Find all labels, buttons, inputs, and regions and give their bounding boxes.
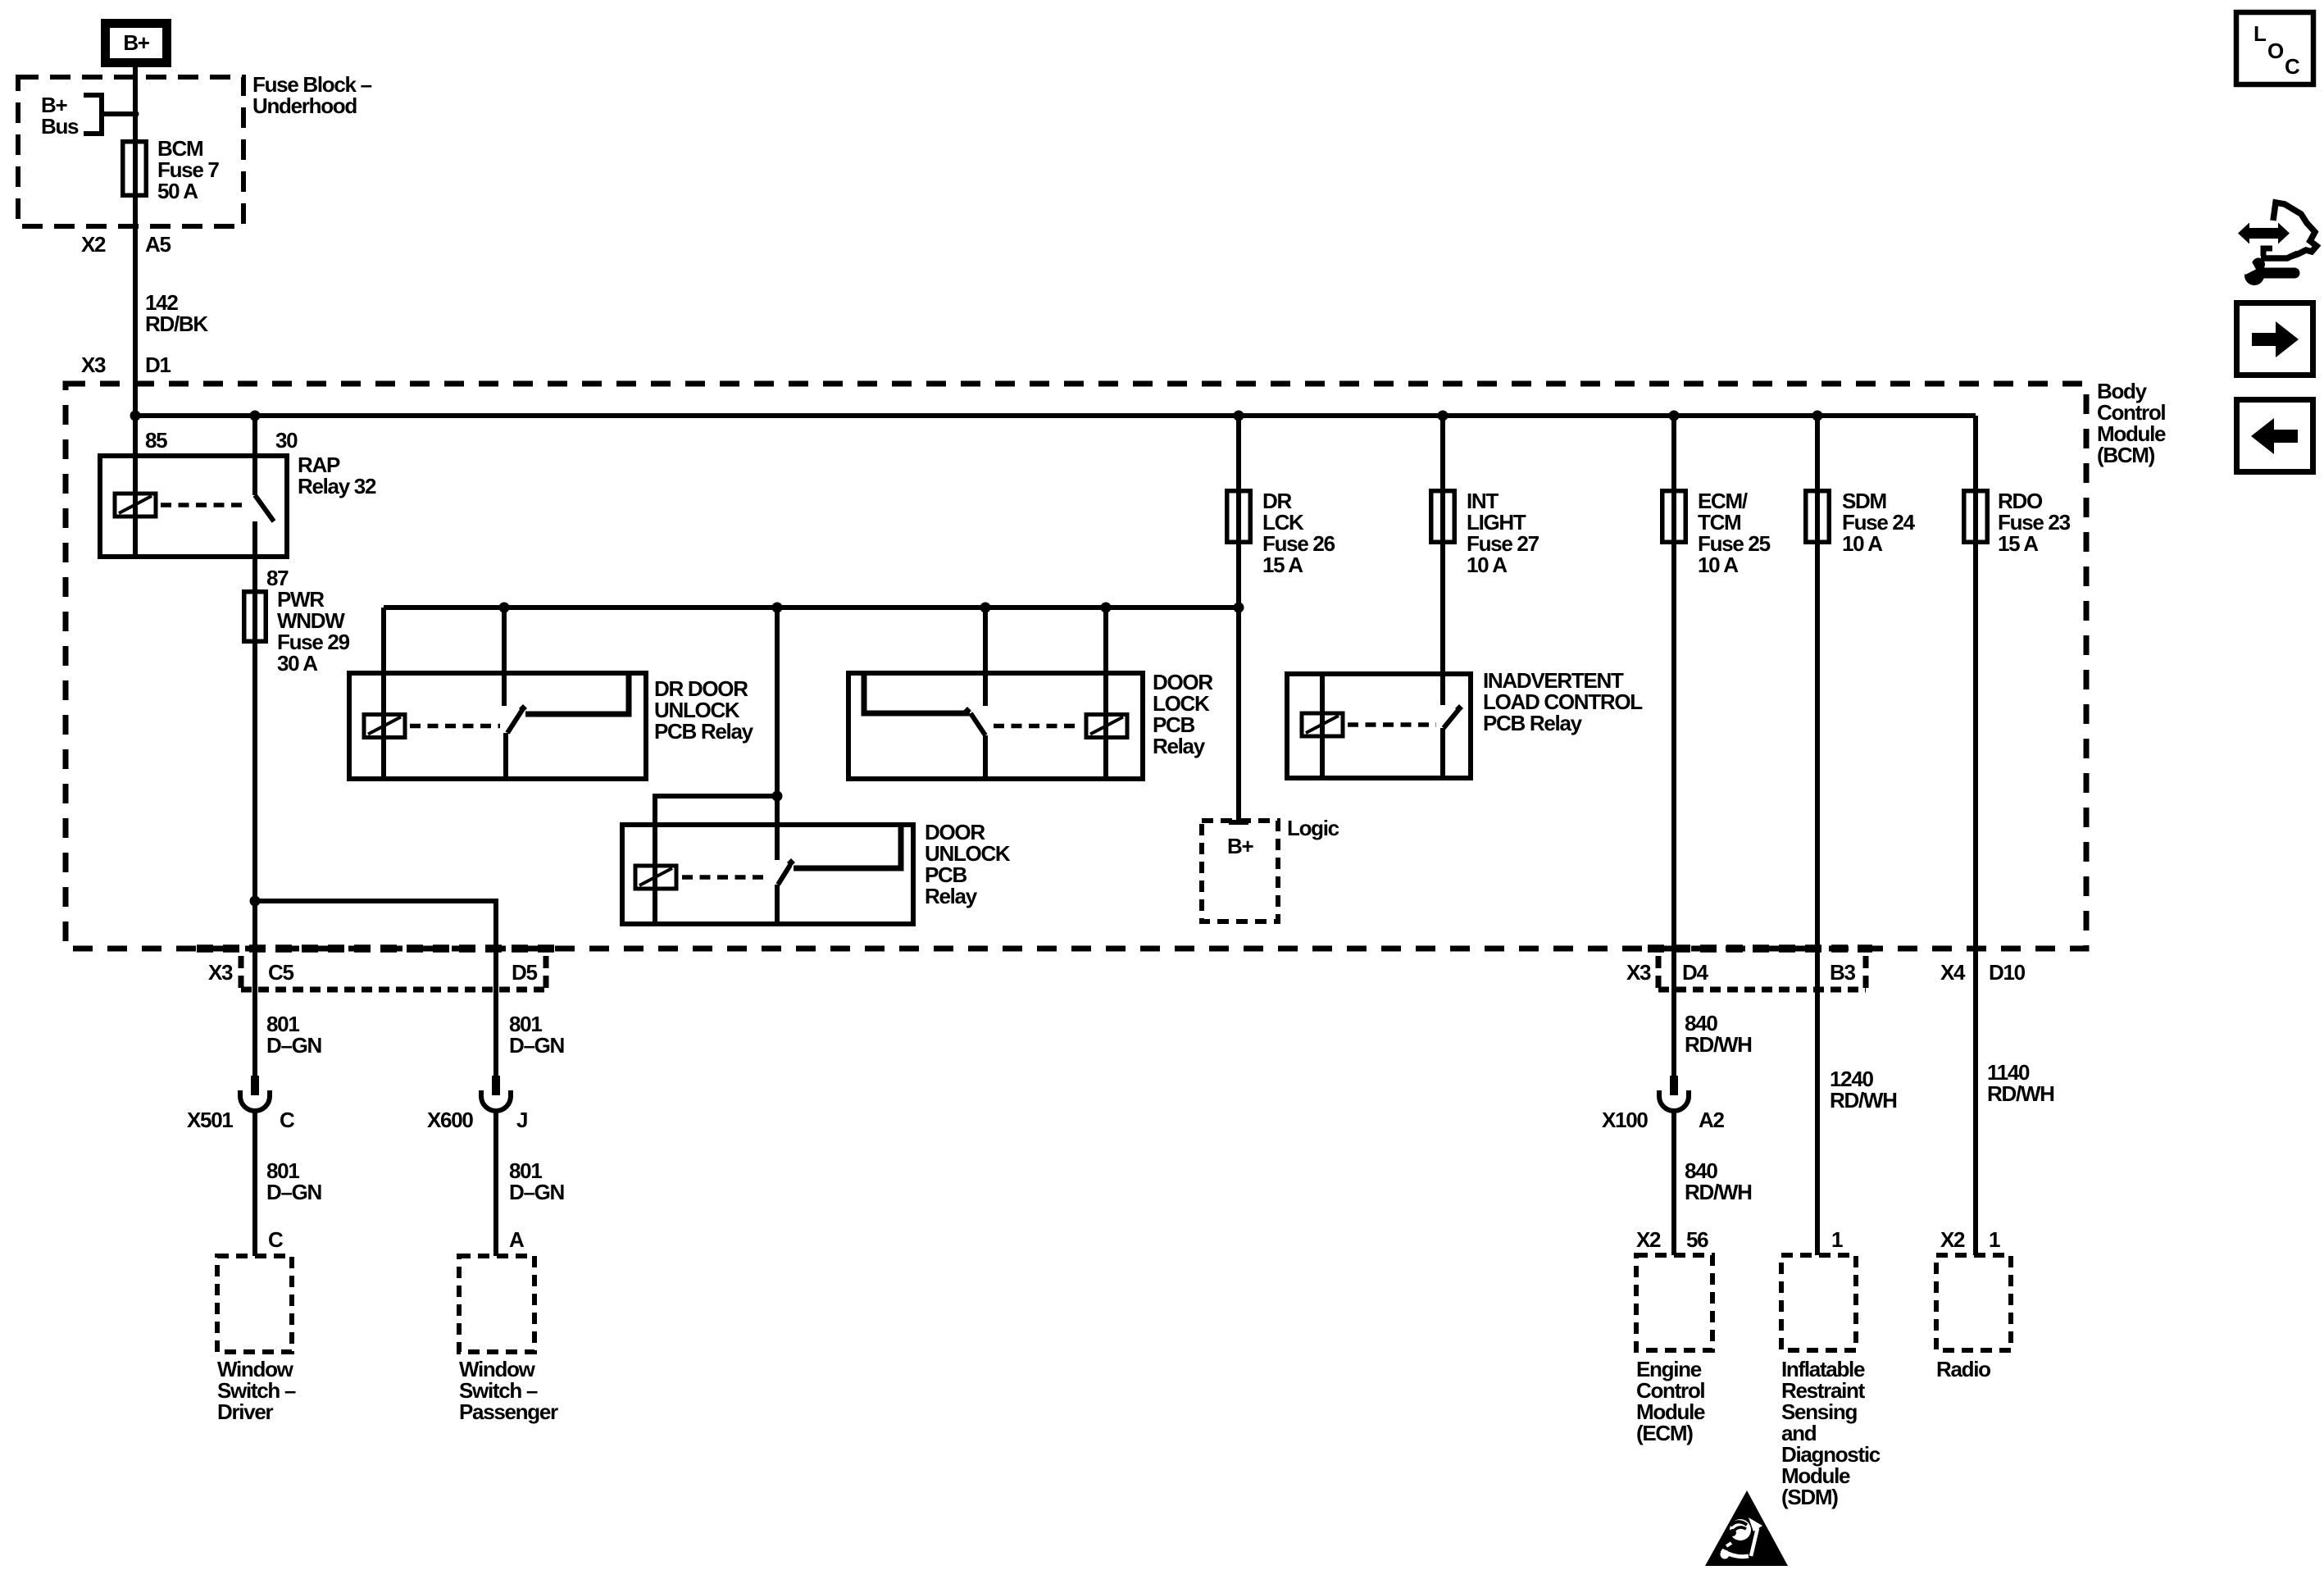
svg-text:X2: X2 — [81, 232, 106, 257]
svg-text:15 A: 15 A — [1998, 531, 2039, 556]
label Logic — [1287, 816, 1339, 840]
svg-text:A: A — [509, 1227, 525, 1252]
wire 142 feed from B+ to BCM — [133, 67, 138, 416]
label DOOR LOCK PCB Relay — [1153, 670, 1213, 758]
svg-text:D10: D10 — [1989, 960, 2026, 985]
wire switched rail — [384, 605, 1239, 610]
svg-text:Relay 32: Relay 32 — [298, 474, 376, 498]
node rail/fuse26 branch — [1234, 603, 1244, 613]
node bus/fuse25 — [1669, 411, 1680, 421]
label pin 85 — [145, 428, 167, 453]
wire label 142 RD/BK — [145, 290, 208, 336]
label X3 — [208, 960, 233, 985]
DR-unlock coil pin wire — [381, 607, 386, 779]
node bus/fuse26 — [1234, 411, 1244, 421]
svg-text:X3: X3 — [208, 960, 233, 985]
node rail/door-lock coil — [1101, 603, 1112, 613]
svg-text:O: O — [2267, 39, 2284, 63]
svg-text:C: C — [2285, 54, 2300, 79]
icon arrow previous page — [2237, 400, 2313, 472]
svg-text:D–GN: D–GN — [266, 1033, 322, 1058]
label Radio — [1936, 1357, 1990, 1381]
box SDM — [1781, 1255, 1856, 1350]
svg-text:1: 1 — [1831, 1227, 1843, 1252]
svg-text:85: 85 — [145, 428, 167, 453]
inadvertent switch blade — [1443, 704, 1463, 778]
svg-text:X2: X2 — [1940, 1227, 1965, 1252]
label Window Switch Driver — [217, 1357, 296, 1424]
label fuse block underhood — [252, 72, 372, 118]
wire label 1140 RD/WH — [1987, 1060, 2054, 1106]
svg-text:PCB Relay: PCB Relay — [1483, 711, 1583, 735]
icon airbag caution triangle — [1705, 1490, 1788, 1566]
svg-text:RD/BK: RD/BK — [145, 312, 208, 336]
svg-text:RD/WH: RD/WH — [1685, 1180, 1752, 1204]
svg-text:A5: A5 — [145, 232, 171, 257]
wire 801 D-GN to driver switch — [255, 1110, 322, 1256]
svg-text:RD/WH: RD/WH — [1987, 1081, 2054, 1106]
wire label 801 D-GN (C5) — [266, 1012, 322, 1058]
label Inflatable Restraint SDM — [1781, 1357, 1881, 1509]
svg-text:10 A: 10 A — [1698, 553, 1739, 577]
box Radio — [1936, 1255, 2011, 1350]
label INADVERTENT LOAD CONTROL PCB Relay — [1483, 668, 1643, 735]
label X4 — [1940, 960, 1966, 985]
svg-text:C: C — [268, 1227, 284, 1252]
DR-unlock NO contact bar — [525, 676, 629, 714]
fuse block underhood box — [18, 77, 243, 226]
door-unlock switch pin wire — [775, 607, 780, 860]
Body Control Module (BCM) box — [66, 384, 2086, 949]
connector strip X3 C5/D5 — [241, 956, 546, 994]
fuse PWR WNDW Fuse 29 30 A — [244, 592, 266, 642]
svg-text:(SDM): (SDM) — [1781, 1485, 1838, 1509]
svg-text:X600: X600 — [427, 1108, 473, 1132]
label pin 1 (SDM) — [1831, 1227, 1843, 1252]
svg-text:D–GN: D–GN — [509, 1033, 565, 1058]
fuse RDO Fuse 23 15 A — [1964, 416, 1988, 1255]
DR-unlock switch blade — [506, 704, 527, 779]
wire label 1240 RD/WH — [1830, 1067, 1897, 1113]
label SDM Fuse 24 — [1842, 489, 1916, 556]
inadvertent switch pin wire — [1440, 544, 1445, 705]
connector X600 pin J — [427, 1076, 527, 1132]
label pin B3 — [1830, 960, 1855, 985]
relay DOOR LOCK PCB — [848, 673, 1143, 779]
svg-text:X3: X3 — [81, 353, 106, 377]
wire label 840 RD/WH lower — [1674, 1110, 1752, 1255]
node B+ logic — [1202, 821, 1278, 921]
label pin 30 — [275, 428, 298, 453]
RAP relay coil — [115, 494, 248, 516]
svg-text:(BCM): (BCM) — [2097, 443, 2155, 467]
relay RAP Relay 32 — [100, 456, 287, 557]
wire 801 D-GN to passenger switch — [496, 1110, 565, 1256]
connector X3 pin D1 — [81, 353, 171, 377]
door-unlock NO contact bar — [794, 827, 901, 868]
node bus/fuse24 — [1812, 411, 1823, 421]
svg-text:D5: D5 — [512, 960, 537, 985]
icon data link connector (car + wrench) — [2238, 202, 2317, 285]
label pin A — [509, 1227, 525, 1252]
label RDO Fuse 23 — [1998, 489, 2071, 556]
svg-text:D–GN: D–GN — [509, 1180, 565, 1204]
node jog junction — [250, 896, 261, 907]
svg-text:30: 30 — [275, 428, 298, 453]
label pin C — [268, 1227, 284, 1252]
connector strip top edge overlays — [197, 944, 1872, 953]
svg-text:15 A: 15 A — [1262, 553, 1303, 577]
svg-text:D–GN: D–GN — [266, 1180, 322, 1204]
label pin D10 — [1989, 960, 2026, 985]
relay DOOR UNLOCK PCB — [622, 825, 913, 924]
fuse ECM/TCM Fuse 25 10 A — [1662, 416, 1686, 1076]
label Engine Control Module (ECM) — [1636, 1357, 1705, 1445]
connector X100 pin A2 — [1602, 1076, 1724, 1132]
DR-unlock relay coil — [364, 715, 500, 738]
svg-text:A2: A2 — [1699, 1108, 1724, 1132]
svg-text:10 A: 10 A — [1842, 531, 1883, 556]
wire label 801 D-GN (D5) — [509, 1012, 565, 1058]
svg-text:30 A: 30 A — [277, 651, 318, 676]
wire 801 to driver switch — [252, 644, 257, 1076]
svg-text:X3: X3 — [1626, 960, 1651, 985]
icon arrow next page — [2237, 303, 2313, 375]
label pin C5 — [268, 960, 293, 985]
RAP switch blade — [255, 495, 274, 521]
inadvertent relay coil — [1302, 713, 1436, 736]
svg-text:56: 56 — [1686, 1227, 1708, 1252]
label pin 87 — [266, 566, 289, 590]
svg-text:Underhood: Underhood — [252, 93, 357, 118]
box Engine Control Module — [1636, 1255, 1712, 1350]
connector X2 pin A5 — [81, 232, 171, 257]
fuse DR LCK Fuse 26 15 A — [1227, 416, 1251, 822]
label RAP Relay 32 — [298, 453, 376, 498]
label X3 (right) — [1626, 960, 1651, 985]
svg-text:Bus: Bus — [41, 114, 79, 139]
junction node RAP pin30 — [250, 411, 261, 421]
label BCM Fuse 7 — [157, 136, 219, 203]
label Window Switch Passenger — [459, 1357, 558, 1424]
label pin D4 — [1682, 960, 1708, 985]
svg-text:D4: D4 — [1682, 960, 1708, 985]
relay DR DOOR UNLOCK PCB — [349, 673, 646, 779]
svg-text:C: C — [280, 1108, 295, 1132]
svg-text:1: 1 — [1989, 1227, 2000, 1252]
wire label 840 RD/WH upper — [1685, 1011, 1752, 1057]
svg-text:(ECM): (ECM) — [1636, 1421, 1693, 1445]
node rail/DR-unlock switch — [499, 603, 510, 613]
wire jog to D5 — [255, 901, 496, 1076]
door-unlock switch blade — [777, 858, 795, 924]
connector strip X3 D4/B3 — [1658, 956, 1866, 994]
svg-text:X501: X501 — [187, 1108, 233, 1132]
fuse SDM Fuse 24 10 A — [1806, 416, 1830, 1255]
RAP switch pin 30 wire — [252, 416, 257, 495]
door-unlock relay coil — [635, 825, 769, 924]
door-lock NO contact bar — [864, 676, 970, 713]
svg-text:C5: C5 — [268, 960, 293, 985]
door-lock switch pin wire — [983, 607, 988, 706]
svg-text:RD/WH: RD/WH — [1830, 1088, 1897, 1113]
label pin D5 — [512, 960, 537, 985]
RAP pin 87 wire — [252, 521, 257, 901]
svg-text:X4: X4 — [1940, 960, 1966, 985]
svg-text:B+: B+ — [1227, 834, 1253, 858]
svg-text:Logic: Logic — [1287, 816, 1339, 840]
svg-text:Radio: Radio — [1936, 1357, 1990, 1381]
svg-text:Relay: Relay — [925, 884, 978, 908]
label Body Control Module (BCM) — [2097, 379, 2166, 467]
svg-text:10 A: 10 A — [1467, 553, 1508, 577]
svg-text:50 A: 50 A — [157, 179, 198, 203]
node bus/fuse27 — [1438, 411, 1449, 421]
svg-text:D1: D1 — [145, 353, 171, 377]
box Window Switch Passenger — [459, 1256, 534, 1352]
label DR LCK Fuse 26 — [1262, 489, 1335, 577]
svg-text:Relay: Relay — [1153, 734, 1206, 758]
label ECM/TCM Fuse 25 — [1698, 489, 1771, 577]
connector X501 pin C — [187, 1076, 295, 1132]
wire B+ bus — [135, 413, 1976, 418]
relay INADVERTENT LOAD CONTROL PCB — [1287, 674, 1471, 778]
box Window Switch Driver — [217, 1256, 292, 1352]
svg-text:J: J — [516, 1108, 527, 1132]
door-lock relay coil — [994, 607, 1127, 779]
svg-text:B+: B+ — [123, 30, 149, 55]
fuse BCM Fuse 7 50 A — [123, 142, 147, 196]
node rail/door-unlock pin — [772, 603, 783, 613]
junction node feed/bus — [130, 411, 141, 421]
svg-text:Driver: Driver — [217, 1399, 274, 1424]
label X2 pin 1 (radio) — [1940, 1227, 2000, 1252]
node B+ bus tap — [41, 93, 139, 139]
door-lock switch blade — [963, 707, 985, 779]
door-unlock branch wire — [655, 791, 783, 826]
label DOOR UNLOCK PCB Relay — [925, 820, 1011, 908]
svg-text:B3: B3 — [1830, 960, 1855, 985]
svg-text:RD/WH: RD/WH — [1685, 1032, 1752, 1057]
label INT LIGHT Fuse 27 — [1467, 489, 1539, 577]
label PWR WNDW Fuse 29 — [277, 587, 350, 676]
svg-text:L: L — [2254, 21, 2267, 46]
svg-text:X2: X2 — [1636, 1227, 1661, 1252]
power terminal B+ — [106, 24, 167, 63]
RAP coil pin 85 wire — [133, 416, 138, 557]
svg-text:Passenger: Passenger — [459, 1399, 558, 1424]
label DR DOOR UNLOCK PCB Relay — [654, 676, 754, 744]
node rail/door-lock switch — [980, 603, 991, 613]
fuse INT LIGHT Fuse 27 10 A — [1431, 416, 1455, 544]
icon LOC box — [2236, 12, 2313, 84]
DR-unlock switch pin wire — [502, 607, 507, 706]
inadvertent coil pin wire — [1320, 674, 1325, 778]
svg-text:X100: X100 — [1602, 1108, 1648, 1132]
label X2 pin 56 — [1636, 1227, 1708, 1252]
svg-text:PCB Relay: PCB Relay — [654, 719, 754, 744]
